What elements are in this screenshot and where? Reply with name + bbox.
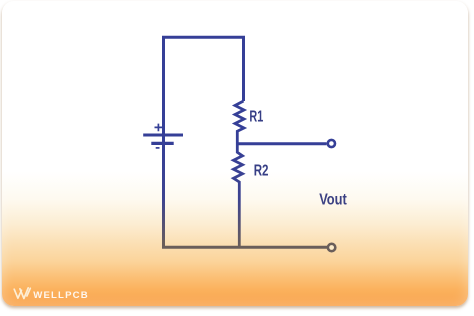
svg-text:Vout: Vout <box>319 191 347 208</box>
svg-text:R1: R1 <box>249 108 263 125</box>
svg-text:R2: R2 <box>254 163 269 180</box>
svg-text:WELLPCB: WELLPCB <box>33 290 88 301</box>
